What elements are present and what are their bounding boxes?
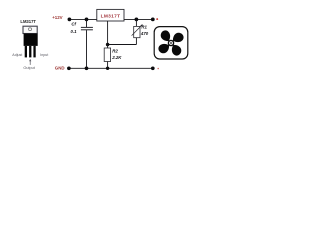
svg-text:R1: R1 [141, 24, 147, 29]
svg-text:+12V: +12V [52, 15, 62, 20]
svg-text:LM317T: LM317T [101, 13, 121, 19]
svg-text:Input: Input [40, 53, 48, 57]
svg-text:LM317T: LM317T [20, 19, 36, 24]
svg-text:R2: R2 [112, 48, 118, 53]
svg-text:2.2K: 2.2K [111, 55, 122, 60]
svg-text:Cf: Cf [71, 21, 76, 26]
svg-text:470: 470 [140, 31, 149, 36]
svg-text:Adjust: Adjust [12, 53, 22, 57]
svg-text:GND: GND [55, 66, 65, 71]
svg-text:0.1: 0.1 [71, 29, 78, 34]
svg-text:Output: Output [23, 66, 35, 70]
